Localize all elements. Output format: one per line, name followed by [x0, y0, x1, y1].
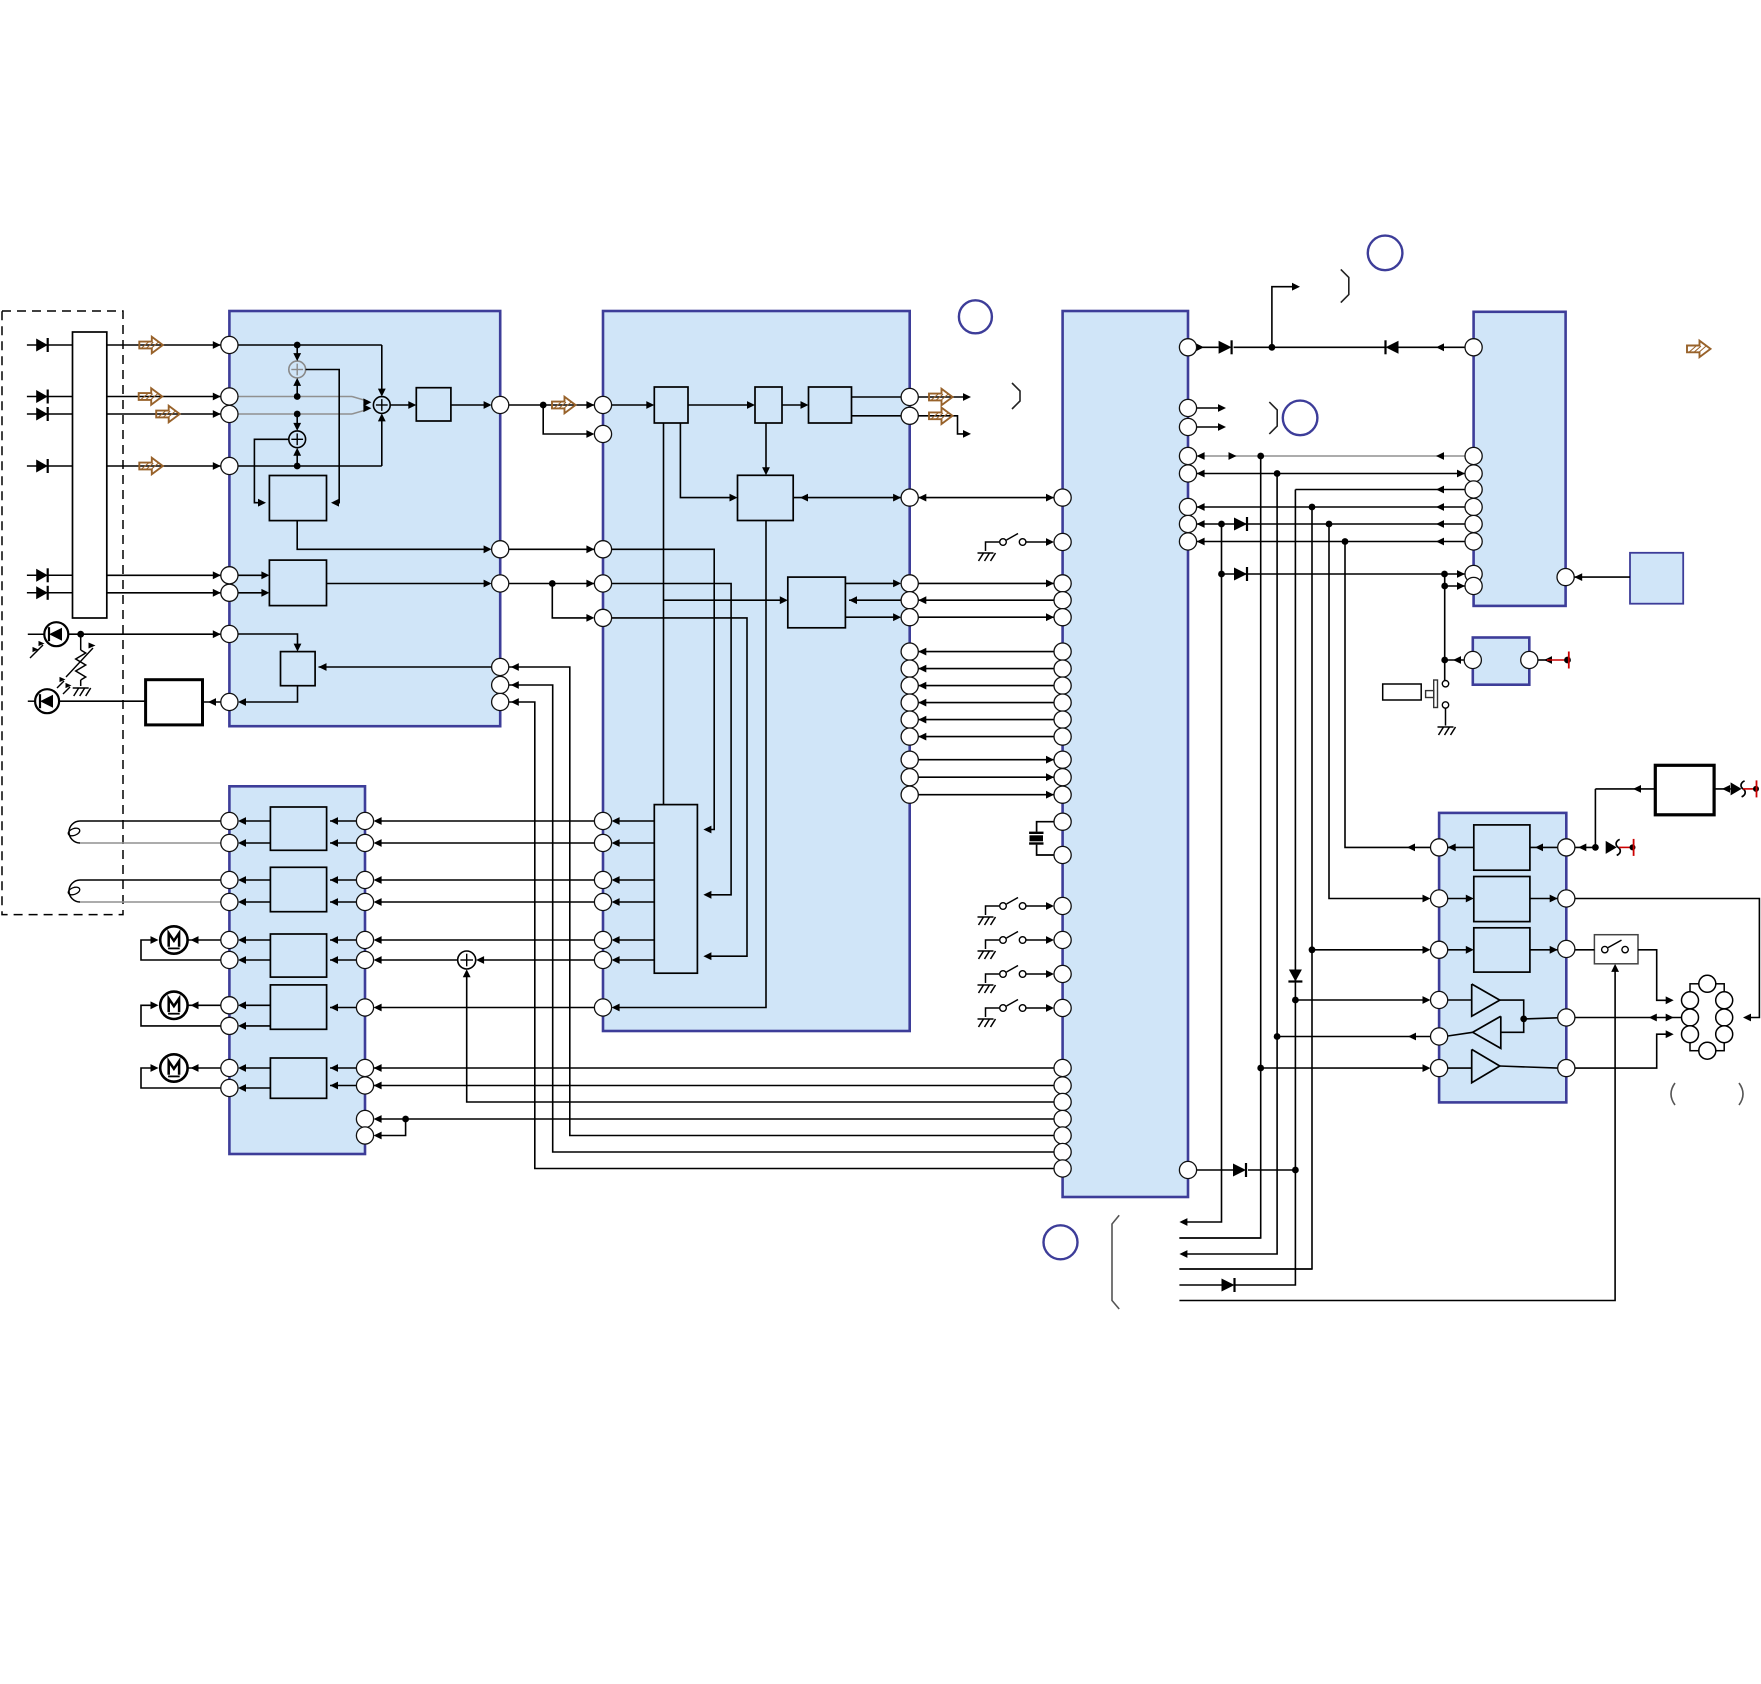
- wire delay out to pin: [297, 521, 491, 554]
- wire servo to pin: [612, 936, 655, 944]
- pin: [594, 425, 611, 442]
- wire xtal pin1: [1037, 822, 1054, 832]
- power supply box: [1655, 765, 1714, 815]
- pin: [1465, 577, 1482, 594]
- wire buf1 out loop: [1500, 1000, 1527, 1032]
- wire pickup output row 3: [107, 410, 221, 418]
- wire B to C data: [918, 773, 1054, 781]
- pin: [221, 951, 238, 968]
- pin: [1179, 418, 1196, 435]
- wire F row847 inner: [1448, 844, 1558, 852]
- pin: [1054, 786, 1071, 803]
- pin: [1465, 498, 1482, 515]
- diode D707: [1233, 1163, 1246, 1177]
- connector circle CN1: [1368, 236, 1403, 271]
- wire EQ to RF out pin: [451, 401, 492, 409]
- pin: [356, 1110, 373, 1127]
- wire A-in PD4 to summing: [238, 413, 386, 469]
- wire stage to pin: [238, 936, 270, 944]
- pin: [594, 834, 611, 851]
- test switch SW0: [978, 534, 1055, 562]
- tracking coil: [67, 880, 221, 902]
- wire stage to pin: [238, 817, 270, 825]
- photodiode PD6: [27, 586, 73, 600]
- wire box to D: [1574, 573, 1630, 581]
- signal-flow arrow (hatched): [156, 406, 180, 422]
- wire B to G: [374, 898, 612, 906]
- wire B618 to servo: [612, 618, 747, 960]
- wire C to B row600: [918, 596, 1054, 604]
- pin: [901, 489, 918, 506]
- IC603 motor driver block: [229, 786, 365, 1154]
- wire stage to pin: [238, 1064, 270, 1072]
- wire servo to pin: [612, 839, 655, 847]
- signal-flow arrow (hatched): [929, 408, 953, 424]
- wire sq1 to center blk: [680, 423, 737, 502]
- key switch SW4: [978, 1000, 1055, 1028]
- pin: [1431, 991, 1448, 1008]
- wire C to B ctl: [918, 716, 1054, 724]
- pin: [1054, 711, 1071, 728]
- pin: [356, 1127, 373, 1144]
- servo block: [654, 805, 697, 974]
- pin: [594, 575, 611, 592]
- wire pin to stage: [330, 898, 356, 906]
- connector circle CN2: [1283, 401, 1318, 436]
- bus v5: [1179, 507, 1315, 1269]
- wire xtal pin2: [1037, 845, 1054, 855]
- wire B to G row1007: [374, 1004, 612, 1012]
- wire B583 to servo: [612, 584, 732, 899]
- wire cable row1300 (to mute sw): [1179, 964, 1619, 1301]
- pin: [1054, 769, 1071, 786]
- wire pin to stage: [330, 876, 356, 884]
- pin: [221, 871, 238, 888]
- wire buf2 out: [1448, 1032, 1473, 1036]
- wire S2 from below: [293, 448, 301, 466]
- pin: [1431, 890, 1448, 907]
- pin: [492, 396, 509, 413]
- wire pickup output row 4: [107, 462, 221, 470]
- wire pickup output row 1: [107, 341, 221, 349]
- wire RF out: [509, 401, 595, 409]
- wire v4 tail: [1179, 1284, 1221, 1286]
- pin: [221, 1017, 238, 1034]
- wire buf3 out: [1500, 1066, 1558, 1068]
- wire servo to pin: [612, 898, 655, 906]
- pin: [221, 567, 238, 584]
- pin: [1054, 643, 1071, 660]
- wire pickup output row 2: [107, 393, 221, 401]
- wire stage to pin: [238, 956, 270, 964]
- pin: [356, 834, 373, 851]
- wire row1119 branch: [374, 1119, 406, 1139]
- connector circle CN3: [959, 300, 992, 333]
- pin: [1054, 1077, 1071, 1094]
- pin: [1431, 1060, 1448, 1077]
- pin: [1054, 1160, 1071, 1177]
- pin: [901, 728, 918, 745]
- wire buf row1019: [1524, 1018, 1558, 1019]
- spindle motor M1: [141, 926, 221, 960]
- connector circle CN4: [1044, 1225, 1078, 1259]
- driver stage 4: [270, 985, 326, 1029]
- wire C to G row1119: [374, 1115, 1054, 1123]
- bus v1: [1179, 524, 1221, 1226]
- pin: [901, 660, 918, 677]
- wire junction to S1: [293, 345, 301, 361]
- loading motor M3: [141, 1054, 221, 1088]
- wire F1034 to v3: [1277, 1033, 1430, 1041]
- pin: [901, 769, 918, 786]
- wire sq1 to servo top: [663, 423, 665, 805]
- driver sub-block 1: [1474, 825, 1530, 870]
- wire center down to pin1007: [612, 521, 766, 1012]
- wire row347 to D: [1399, 343, 1466, 351]
- pin: [221, 931, 238, 948]
- pin: [1431, 839, 1448, 856]
- pin: [356, 812, 373, 829]
- wire C row1102 to sum: [463, 969, 1054, 1102]
- wire pin to stage: [330, 1004, 356, 1012]
- pin: [594, 999, 611, 1016]
- diode D708 with supply: [1715, 780, 1759, 797]
- wire pin to stage: [330, 936, 356, 944]
- pin: [594, 396, 611, 413]
- wire matrix out: [327, 580, 492, 588]
- wire C-D row524: [1197, 520, 1465, 528]
- pin: [1179, 533, 1196, 550]
- photodetector block (vertical rectangle): [73, 332, 107, 618]
- IC703 reset block: [1473, 638, 1530, 685]
- photodiode PD5: [27, 568, 73, 582]
- pin: [1179, 447, 1196, 464]
- pin: [1054, 660, 1071, 677]
- wire C row1170: [1197, 1169, 1233, 1171]
- pin: [356, 999, 373, 1016]
- wire F1068 to jack: [1575, 1030, 1674, 1068]
- diode D706: [1222, 1278, 1235, 1292]
- pin: [1465, 339, 1482, 356]
- wire servo to pin: [612, 876, 655, 884]
- PLL block 3: [809, 387, 852, 423]
- pin: [1179, 339, 1196, 356]
- pin: [1179, 399, 1196, 416]
- wire A to B row583: [509, 580, 595, 588]
- wire pin1085 to stage5: [330, 1082, 356, 1090]
- wire sum to G: [374, 956, 458, 964]
- optical pickup assembly (dashed outline): [2, 311, 123, 915]
- pin: [594, 609, 611, 626]
- pin: [1431, 941, 1448, 958]
- pin: [221, 457, 238, 474]
- pin: [356, 1059, 373, 1076]
- pin: [901, 786, 918, 803]
- wire RF to sub pin: [543, 405, 594, 438]
- pin: [901, 677, 918, 694]
- wire row586 stub: [1441, 582, 1465, 590]
- pin: [1054, 1127, 1071, 1144]
- buffer amp 2 (reverse): [1473, 1016, 1501, 1048]
- pin: [901, 609, 918, 626]
- pin: [1179, 515, 1196, 532]
- pin: [594, 871, 611, 888]
- wire stage to pin: [238, 898, 270, 906]
- wire A685 down-bus: [509, 681, 1054, 1152]
- pin: [221, 584, 238, 601]
- wire C to G row1085: [374, 1082, 1054, 1090]
- wire PLL2 to PLL3: [782, 401, 809, 409]
- wire C out row427: [1197, 423, 1226, 431]
- APC drive box: [146, 680, 203, 725]
- wire pin to stage: [330, 956, 356, 964]
- wire PLL1 to PLL2: [688, 401, 755, 409]
- bus v3: [1179, 474, 1280, 1258]
- wire E left: [1445, 656, 1465, 664]
- jack contact: [1716, 1026, 1733, 1043]
- driver sub-block 2: [1474, 877, 1530, 922]
- pin: [1465, 565, 1482, 582]
- pin: [492, 676, 509, 693]
- driver stage 3: [270, 934, 326, 977]
- IC601 RF amplifier block: [229, 311, 500, 726]
- wire F-in to matrix: [238, 589, 269, 597]
- pin: [1465, 481, 1482, 498]
- pin: [221, 812, 238, 829]
- pin: [1054, 1143, 1071, 1160]
- pin: [1054, 1093, 1071, 1110]
- wire PLL3 out EFM2: [852, 415, 902, 417]
- diode D709 with supply: [1606, 839, 1636, 856]
- wire stage to pin: [238, 876, 270, 884]
- wire servo to pin: [612, 817, 655, 825]
- pin: [356, 893, 373, 910]
- pin: [1179, 1161, 1196, 1178]
- wire F898 to jack R: [1575, 899, 1760, 1022]
- signal-flow arrow (hatched): [552, 397, 576, 413]
- wire F row898 inner: [1448, 895, 1558, 903]
- wire B-in to PLL1: [612, 401, 655, 409]
- pin: [492, 575, 509, 592]
- wire EFM out 2: [918, 416, 971, 438]
- pin: [492, 693, 509, 710]
- pin: [901, 592, 918, 609]
- pin: [1465, 515, 1482, 532]
- signal-flow arrow (hatched): [139, 337, 163, 353]
- wire v5 to F949: [1312, 946, 1431, 954]
- mute switch box: [1594, 935, 1638, 964]
- pin: [221, 997, 238, 1014]
- photodiode PD4: [27, 459, 73, 473]
- wire C out row408: [1197, 404, 1226, 412]
- pin: [1054, 489, 1071, 506]
- pin: [221, 693, 238, 710]
- pin: [1558, 1009, 1575, 1026]
- focus coil: [67, 821, 221, 843]
- wire C-D row541: [1197, 538, 1465, 546]
- pin: [221, 625, 238, 642]
- jack contact: [1716, 992, 1733, 1009]
- wire pin1068 to stage5: [330, 1064, 356, 1072]
- pin: [901, 575, 918, 592]
- buffer amp 1: [1472, 984, 1500, 1016]
- wire IC601 to APC box: [203, 698, 221, 706]
- buffer amp 3: [1472, 1049, 1500, 1082]
- wire C to B ctl: [918, 682, 1054, 690]
- cable bracket: [1112, 1215, 1119, 1309]
- wire A702 down-bus: [509, 698, 1054, 1168]
- signal-flow arrow (hatched): [1687, 341, 1711, 357]
- pin: [221, 1059, 238, 1076]
- wire pin to stage: [330, 839, 356, 847]
- wire MD to IC601: [68, 630, 221, 638]
- jack contact: [1699, 975, 1716, 992]
- pin: [594, 541, 611, 558]
- wire F949 to sw: [1575, 949, 1595, 951]
- wire B549 to servo: [612, 549, 715, 833]
- jack contact: [1682, 1009, 1699, 1026]
- driver stage 5: [270, 1058, 326, 1098]
- wire stage to pin: [238, 1022, 270, 1030]
- pin: [1054, 897, 1071, 914]
- signal-flow arrow (hatched): [929, 389, 953, 405]
- diode D701: [1219, 340, 1232, 354]
- key switch SW1: [978, 898, 1055, 926]
- wire subQ B-C: [918, 494, 1054, 502]
- wire C-D row507: [1197, 503, 1465, 511]
- bus v4: [1234, 490, 1299, 1286]
- pin: [1054, 931, 1071, 948]
- wire LD to APC box: [59, 700, 146, 702]
- pin: [594, 931, 611, 948]
- pin: [901, 711, 918, 728]
- connector mark: [1012, 383, 1020, 409]
- wire S1 from below: [293, 378, 301, 397]
- RF EQ block: [416, 388, 451, 421]
- wire B to C row617: [918, 613, 1054, 621]
- pin: [901, 694, 918, 711]
- photodiode PD3: [27, 407, 73, 421]
- wire D row489 to bus: [1295, 486, 1465, 494]
- wire C power row347: [1196, 343, 1219, 351]
- wire A667 down-bus: [509, 663, 1054, 1135]
- wire E-in to matrix: [238, 571, 269, 579]
- pin: [356, 931, 373, 948]
- wire PLL3 out EFM1: [852, 396, 902, 398]
- pin: [1054, 965, 1071, 982]
- jack contact: [1682, 1026, 1699, 1043]
- wire v2 to F1068: [1261, 1064, 1431, 1072]
- blue box (display): [1630, 553, 1683, 604]
- delay block: [269, 476, 326, 521]
- pin: [1558, 940, 1575, 957]
- pin: [1054, 592, 1071, 609]
- driver sub-block 3: [1474, 928, 1530, 972]
- wire C to B ctl: [918, 733, 1054, 741]
- pin: [1558, 890, 1575, 907]
- pin: [1557, 569, 1574, 586]
- key switch SW2: [978, 932, 1055, 960]
- monitor photodiode: [28, 622, 69, 658]
- main summing node: [373, 397, 390, 414]
- pin: [901, 751, 918, 768]
- wire APC to LD pin: [238, 686, 298, 706]
- jack contact: [1682, 992, 1699, 1009]
- photodiode PD1: [27, 338, 73, 352]
- pin: [221, 405, 238, 422]
- pin: [221, 388, 238, 405]
- wire C-D row473: [1197, 470, 1465, 478]
- wire A to B row549: [509, 545, 595, 553]
- diode D703: [1234, 517, 1247, 531]
- wire buf3 in: [1448, 1067, 1472, 1069]
- pin: [901, 388, 918, 405]
- FE/TE matrix block: [269, 560, 326, 606]
- pin: [356, 1077, 373, 1094]
- wire pickup output row 6: [107, 589, 221, 597]
- connector mark: [1341, 269, 1349, 302]
- wire power row574: [1218, 570, 1465, 578]
- PLL block 1: [654, 387, 688, 423]
- wire B to G: [374, 839, 612, 847]
- pin: [356, 951, 373, 968]
- driver stage 2: [270, 867, 326, 911]
- wire cable row1238 tail: [1179, 1237, 1260, 1239]
- pin: [1465, 447, 1482, 464]
- pin: [1054, 813, 1071, 830]
- wire A-in PD1 to summing: [238, 342, 386, 397]
- wire B to G: [374, 817, 612, 825]
- pin: [1054, 1110, 1071, 1127]
- IC701 system controller block: [1063, 311, 1188, 1197]
- decoder block: [788, 577, 846, 628]
- summing node S1: [289, 361, 306, 378]
- wire pickup output row 5: [107, 571, 221, 579]
- wire row1170 to v4: [1248, 1169, 1295, 1171]
- wire sq2 down to center: [762, 423, 770, 475]
- reset switch S701: [1383, 680, 1456, 735]
- wire dec in row600: [849, 596, 901, 604]
- pin: [221, 834, 238, 851]
- pin: [901, 643, 918, 660]
- wire F row949 inner: [1448, 946, 1558, 954]
- wire EFM out 1: [918, 393, 971, 401]
- pin: [1054, 846, 1071, 863]
- signal-flow arrow (hatched): [139, 458, 163, 474]
- pin: [492, 541, 509, 558]
- bus v6: [1329, 524, 1431, 902]
- crystal X701: [1029, 833, 1043, 844]
- wire APC ctl input: [319, 663, 492, 671]
- wire servo to pin: [612, 956, 655, 964]
- pin: [221, 1079, 238, 1096]
- wire B to sum: [476, 956, 611, 964]
- pin: [594, 812, 611, 829]
- signal-flow arrow (hatched): [139, 388, 163, 404]
- wire dec out row617: [845, 613, 901, 621]
- bus v2: [1179, 456, 1264, 1238]
- pin: [1054, 999, 1071, 1016]
- wire center to subQ pin: [793, 494, 901, 502]
- wire sw to jack: [1638, 950, 1674, 1004]
- wire pin to stage: [330, 817, 356, 825]
- wire F847 supply: [1575, 844, 1596, 852]
- wire PD3 junction to S2: [293, 414, 301, 431]
- diode D704: [1234, 567, 1247, 581]
- wire B to C data: [918, 791, 1054, 799]
- wire summer to EQ: [390, 401, 416, 409]
- center control block: [738, 475, 794, 520]
